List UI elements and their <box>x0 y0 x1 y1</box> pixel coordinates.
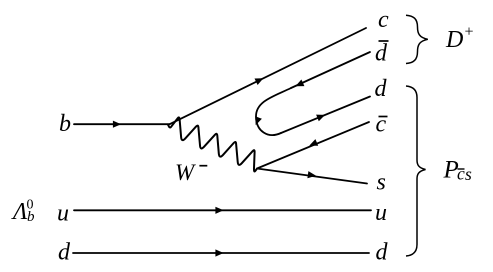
arrow on dbar line <box>295 80 304 87</box>
arrow on c line <box>255 78 264 85</box>
wire: s quark line <box>257 169 367 184</box>
wire: dbar quark line <box>291 52 370 88</box>
svg-text:u: u <box>57 201 69 227</box>
arrow on d line <box>316 115 325 122</box>
svg-text:c: c <box>378 7 389 33</box>
wire: d-dbar pair-creation loop <box>256 88 291 135</box>
overbar of subscript cbar <box>458 168 465 170</box>
wire: b quark line <box>74 123 170 125</box>
boson: W- wavy propagator <box>168 117 257 171</box>
svg-text:b: b <box>59 111 71 137</box>
arrow on u line <box>215 207 223 214</box>
overbar of cbar <box>379 116 388 118</box>
brace: small right brace for D+ <box>406 15 428 63</box>
svg-text:+: + <box>465 24 474 41</box>
svg-text:D: D <box>445 27 463 53</box>
svg-text:d: d <box>375 76 388 102</box>
brace: large right brace for pentaquark <box>406 86 426 256</box>
arrow on lower d line <box>215 249 223 256</box>
wire: cbar quark line <box>257 122 369 169</box>
svg-text:d: d <box>376 239 389 265</box>
wire: d spectator quark line <box>73 252 369 254</box>
svg-text:s: s <box>377 169 386 195</box>
arrow on pair-creation loop <box>255 116 262 125</box>
overbar of dbar <box>379 40 389 42</box>
arrow on cbar line <box>309 139 318 146</box>
svg-text:W: W <box>175 160 196 185</box>
arrow on s line <box>307 171 316 178</box>
svg-text:b: b <box>27 209 35 225</box>
wire: u spectator quark line <box>74 209 371 211</box>
svg-text:c: c <box>376 112 387 138</box>
label: superscript minus of W <box>199 165 207 167</box>
wire: c quark line (vertex to top right) <box>170 28 366 124</box>
svg-text:s: s <box>465 164 472 184</box>
svg-text:Λ: Λ <box>11 199 28 225</box>
svg-text:c: c <box>457 164 465 184</box>
svg-text:u: u <box>375 200 387 226</box>
arrow on b line <box>113 121 121 128</box>
svg-text:d: d <box>58 240 71 266</box>
svg-text:d: d <box>375 41 388 67</box>
wire: d quark line (loop to middle right) <box>281 97 370 134</box>
